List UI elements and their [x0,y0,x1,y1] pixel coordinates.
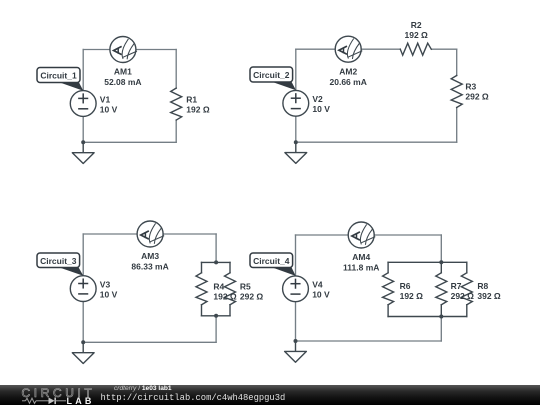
svg-text:52.08 mA: 52.08 mA [104,77,141,87]
voltage source V1 [70,91,96,117]
wire c1 top-right [136,49,176,51]
wire c3 top-right [163,233,216,235]
wire c3 par top bar [202,261,231,263]
wire c2 top-mid [361,48,400,50]
wire c1 top-left [83,49,110,51]
svg-text:292 Ω: 292 Ω [465,91,489,101]
svg-text:192 Ω: 192 Ω [405,30,429,40]
ground c1 [72,142,94,163]
junction c3 par bottom node [214,314,218,318]
logo wordmark LAB [67,396,95,406]
wire c3 R4 bottom stem [201,305,203,316]
label Circuit_2 callout [250,67,296,90]
wire c3 top-left [83,233,137,235]
svg-text:V2: V2 [312,94,323,104]
resistor R5 [225,273,236,305]
logo wire right [55,399,66,401]
wire c3 left lower [82,302,84,343]
wire c3 R4 top stem [201,262,203,272]
wire c1 left lower [82,116,84,142]
wire c2 left upper [295,49,297,90]
svg-text:V1: V1 [100,94,111,104]
svg-text:R7: R7 [451,281,462,291]
svg-text:86.33 mA: 86.33 mA [131,262,168,272]
voltage source V3 [70,276,96,302]
junction c2 bottom node [294,140,298,144]
svg-text:10 V: 10 V [100,289,118,299]
logo wire mid [36,399,49,401]
voltage source V4 [283,276,309,302]
resistor R2 [400,43,431,55]
wire c2 top-right [431,48,456,50]
junction c3 par top node [214,260,218,264]
wire c3 par bottom bar [202,315,231,317]
junction c4 par top node [439,260,443,264]
wire c4 right lower [440,317,442,342]
resistor R7 [436,273,447,305]
footer title line [114,385,172,392]
svg-text:10 V: 10 V [312,290,330,300]
wire c3 right lower [215,316,217,343]
junction c4 bottom node [294,339,298,343]
wire c2 right upper [456,49,458,75]
ground c2 [285,142,307,163]
wire c1 bottom [83,141,176,143]
label Circuit_1 callout [37,68,83,91]
svg-text:192 Ω: 192 Ω [400,291,424,301]
wire c2 left lower [295,116,297,142]
svg-text:Circuit_1: Circuit_1 [40,71,77,81]
wire c4 R8 bottom stem [466,305,468,317]
junction c3 bottom node [81,340,85,344]
wire c3 left upper [82,234,84,276]
svg-text:R4: R4 [213,281,224,291]
ammeter AM3 [137,221,164,247]
wire c3 R5 top stem [229,262,231,272]
logo resistor [26,398,37,403]
svg-text:Circuit_2: Circuit_2 [253,70,290,80]
footer url line [101,393,286,403]
svg-text:10 V: 10 V [100,104,118,114]
svg-text:192 Ω: 192 Ω [186,105,210,115]
svg-text:AM2: AM2 [339,67,357,77]
resistor R8 [461,273,472,305]
wire c1 left upper [82,50,84,91]
svg-text:V4: V4 [312,280,323,290]
wire c4 bottom [296,340,442,342]
svg-text:R3: R3 [465,81,476,91]
wire c4 R6 top stem [387,262,389,273]
svg-text:292 Ω: 292 Ω [240,292,264,302]
wire c4 par top bar [388,261,467,263]
wire c2 bottom [296,141,457,143]
logo wire left [22,399,26,401]
wire c1 right upper [175,50,177,89]
ammeter AM4 [348,222,375,248]
resistor R1 [171,88,182,120]
logo diode [49,397,55,404]
label Circuit_4 callout [250,253,296,276]
svg-text:111.8 mA: 111.8 mA [343,263,379,273]
svg-text:AM4: AM4 [352,252,370,262]
wire c2 top-left [296,48,335,50]
resistor R3 [451,76,462,108]
wire c4 top-right [374,234,441,236]
svg-text:Circuit_4: Circuit_4 [253,256,290,266]
label Circuit_3 callout [37,253,83,276]
svg-text:20.66 mA: 20.66 mA [330,77,367,87]
wire c3 R5 bottom stem [229,305,231,316]
svg-text:AM3: AM3 [141,251,159,261]
svg-text:R1: R1 [186,95,197,105]
wire c4 R7 bottom stem [440,305,442,317]
svg-text:292 Ω: 292 Ω [451,291,475,301]
wire c4 top-left [296,234,349,236]
wire c4 left upper [295,235,297,276]
footer bar [0,385,540,406]
ground c3 [72,342,94,363]
voltage source V2 [283,90,309,116]
svg-text:R5: R5 [240,281,251,291]
junction c1 bottom node [81,140,85,144]
wire c4 par bottom bar [388,316,467,318]
wire c1 right lower [175,120,177,142]
wire c4 right upper [440,235,442,262]
svg-text:R8: R8 [477,281,488,291]
svg-text:192 Ω: 192 Ω [213,292,237,302]
svg-text:AM1: AM1 [114,67,132,77]
wire c4 R7 top stem [440,262,442,273]
wire c3 right upper [215,234,217,262]
junction c4 par bottom node [439,315,443,319]
ammeter AM2 [335,36,362,62]
logo schematic graphic [22,396,66,406]
wire c2 right lower [456,108,458,143]
svg-text:392 Ω: 392 Ω [477,291,501,301]
ammeter AM1 [110,37,137,63]
svg-text:10 V: 10 V [312,104,330,114]
svg-text:V3: V3 [100,279,111,289]
resistor R6 [383,273,394,305]
svg-text:R2: R2 [411,20,422,30]
svg-text:R6: R6 [400,281,411,291]
resistor R4 [196,273,207,305]
svg-text:Circuit_3: Circuit_3 [40,256,77,266]
wire c4 R8 top stem [466,262,468,273]
wire c4 left lower [295,302,297,341]
ground c4 [285,341,307,362]
logo wordmark CIRCUIT [22,386,96,400]
wire c4 R6 bottom stem [387,305,389,317]
wire c3 bottom [83,341,216,343]
